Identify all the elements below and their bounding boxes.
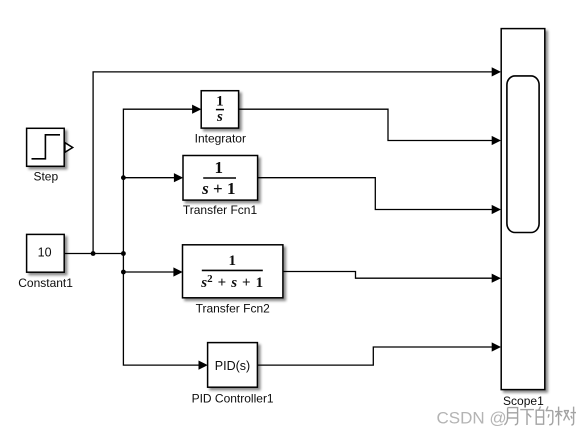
block Step [27,128,65,166]
block PID Controller1 [208,343,258,388]
label Step [33,170,58,184]
arrowhead: Scope1 port 2 [492,136,501,145]
junction dot at (123.4,253.5) [121,251,126,256]
wire: PID Controller1 output to Scope1 port 5 [258,347,493,365]
arrowhead: Transfer Fcn1 input [174,173,183,182]
wire: main vertical trunk x=123.4 up to Integrator row [123,109,194,253]
arrowhead: Scope1 port 3 [492,205,501,214]
arrowhead: Transfer Fcn2 input [173,267,182,276]
watermark glyph 下 [520,410,534,425]
watermark glyph 月 [504,408,517,425]
svg-text:PID Controller1: PID Controller1 [192,392,274,406]
arrowhead: Scope1 port 5 [492,342,501,351]
svg-text:1: 1 [216,93,224,109]
label PID Controller1 [192,392,274,406]
svg-text:Scope1: Scope1 [503,394,544,408]
wire: Constant1 output horizontal [65,253,124,255]
svg-text:Integrator: Integrator [195,131,246,145]
svg-text:Transfer Fcn2: Transfer Fcn2 [196,301,271,315]
watermark glyph 的 [536,406,553,424]
block Constant1 value 10 [27,234,65,272]
block Integrator 1/s [201,91,238,128]
watermark CSDN @ [437,408,507,427]
block Transfer Fcn2 1/(s^2+s+1) [183,245,283,298]
wire: Transfer Fcn1 output to Scope1 port 3 [258,178,493,210]
label Scope1 [503,394,544,408]
arrowhead: PID Controller1 input [199,361,208,370]
svg-text:Transfer Fcn1: Transfer Fcn1 [183,203,258,217]
output port arrow of Step (unconnected) [65,143,73,153]
svg-text:1: 1 [228,253,236,269]
block Scope1 [501,29,545,390]
label Integrator [195,131,246,145]
svg-text:s: s [216,109,223,125]
label Constant1 [18,276,73,290]
label Transfer Fcn2 [196,301,271,315]
wire: main vertical trunk down to PID row [123,254,200,366]
svg-text:s + 1: s + 1 [201,179,235,198]
block Transfer Fcn1 1/(s+1) [183,156,258,201]
wire: Integrator output to Scope1 port 2 [239,109,493,140]
svg-text:Step: Step [33,170,58,184]
svg-text:PID(s): PID(s) [215,359,250,373]
label Transfer Fcn1 [183,203,258,217]
svg-text:10: 10 [38,245,52,259]
svg-text:Constant1: Constant1 [18,276,73,290]
wire: branch to Transfer Fcn1 input [123,177,176,179]
wire: Transfer Fcn2 output to Scope1 port 4 [283,272,493,279]
arrowhead: Scope1 port 1 [492,67,501,76]
watermark glyph 树 [555,407,576,426]
junction dot at (93,253.5) [91,251,96,256]
arrowhead: Integrator input [192,105,201,114]
arrowhead: Scope1 port 4 [492,274,501,283]
junction dot at (123.4,272) [121,270,126,275]
svg-text:1: 1 [215,158,224,177]
wire: branch to Transfer Fcn2 input [123,271,175,273]
svg-text:CSDN @: CSDN @ [437,408,507,427]
junction dot at (123.4,177.7) [121,175,126,180]
wire: branch up at x=93 to top row into Scope1 port 1 [93,72,492,254]
